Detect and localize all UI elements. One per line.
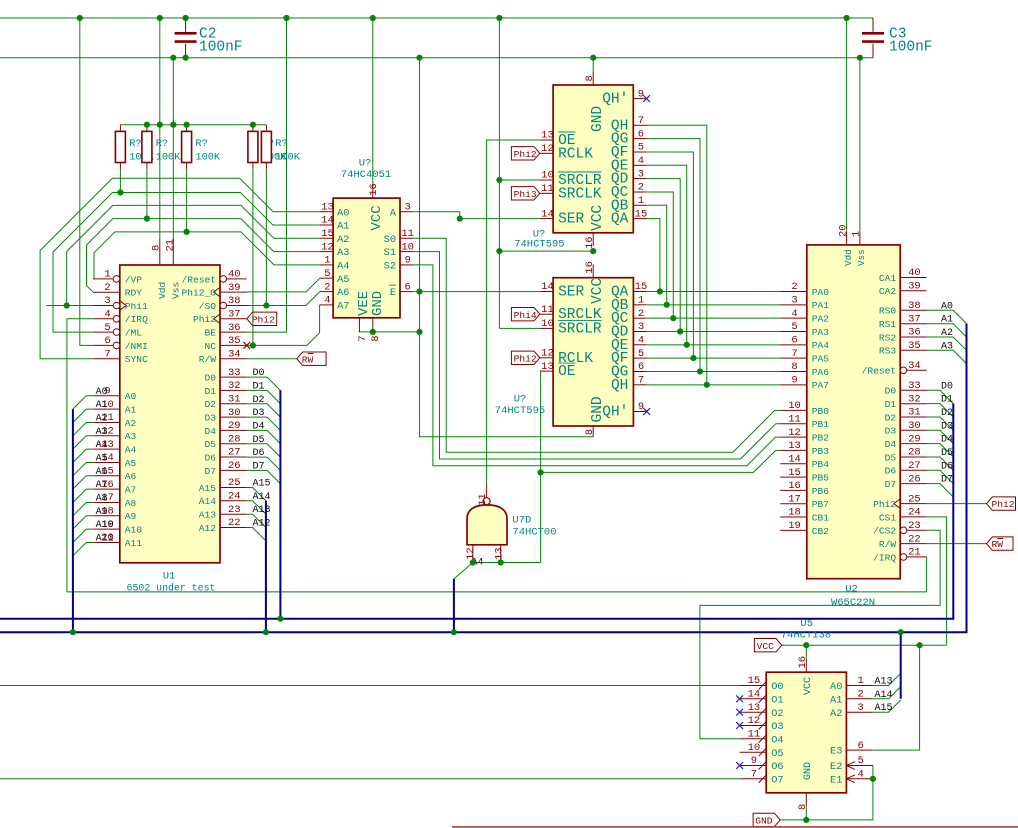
- svg-text:6: 6: [638, 128, 644, 140]
- svg-text:27: 27: [908, 460, 921, 472]
- wire U2 D7 bus entry: [927, 484, 954, 497]
- svg-text:VCC: VCC: [590, 205, 606, 231]
- wire D2 bus entry: [247, 404, 281, 417]
- wire PB3 branch: [541, 450, 781, 472]
- svg-text:14: 14: [541, 208, 554, 220]
- svg-text:A4: A4: [337, 261, 349, 273]
- no-connect QH' 595 top: [643, 95, 650, 102]
- svg-text:A13: A13: [199, 510, 217, 521]
- svg-text:36: 36: [908, 327, 921, 339]
- pin 35 NC no-connect X: [243, 342, 250, 349]
- power label VCC: [754, 639, 781, 652]
- svg-text:5: 5: [104, 322, 110, 334]
- svg-text:Vss: Vss: [171, 282, 182, 299]
- pin 3 PA1 U2: [780, 304, 807, 306]
- svg-text:34: 34: [228, 348, 241, 360]
- pin 27 D6 U2: [900, 469, 926, 471]
- pin 14 O1 U5: [740, 698, 767, 700]
- pin 5 /ML U1: [93, 331, 113, 333]
- svg-text:2: 2: [791, 281, 797, 293]
- svg-text:R?: R?: [129, 138, 141, 150]
- wire U2 RS3 bus entry: [927, 350, 967, 363]
- wire R3 bottom: [186, 169, 188, 232]
- svg-text:A15: A15: [199, 483, 217, 494]
- wire mux VEE to GND: [359, 330, 419, 333]
- svg-text:7: 7: [791, 348, 797, 360]
- wire U5 O7 left: [0, 778, 740, 780]
- svg-text:16: 16: [788, 480, 801, 492]
- pin 8 Vdd U1: [159, 238, 161, 265]
- svg-text:E2: E2: [830, 761, 842, 773]
- pin 9 A0 U1: [93, 395, 120, 397]
- pin 30 D3 U1: [220, 416, 247, 418]
- svg-text:VCC: VCC: [590, 278, 606, 304]
- pin 23 A13 U1: [220, 513, 247, 515]
- pin 5 QF 595 top: [633, 151, 646, 153]
- pin 20 A11 U1: [93, 541, 120, 543]
- wire SRCLR bottom 595: [499, 327, 539, 329]
- svg-text:QH': QH': [602, 405, 628, 421]
- no-connect X U5 O1: [736, 695, 743, 702]
- pin 9 QH' 595 top: [633, 98, 646, 100]
- pin 10 A1 U1: [93, 408, 120, 410]
- wire U5 VCC pin drop: [805, 645, 807, 659]
- pin 21 Vss U1: [172, 238, 174, 265]
- partial component bottom edge: [452, 826, 1018, 828]
- pin 16 VCC 595 bottom: [592, 264, 594, 277]
- svg-text:S0: S0: [384, 234, 396, 246]
- svg-text:D2: D2: [253, 395, 265, 406]
- svg-text:SRCLK: SRCLK: [558, 186, 602, 202]
- svg-text:11: 11: [541, 183, 554, 195]
- via U2 W65C22N body: [807, 245, 900, 579]
- pin 3 A U? 4051: [400, 211, 413, 213]
- svg-text:5: 5: [638, 348, 644, 360]
- wire A6 bus entry: [73, 476, 93, 489]
- svg-text:A7: A7: [337, 301, 349, 313]
- pin 14 SER 595 bottom: [540, 291, 553, 293]
- wire GND to U1 Vss: [172, 58, 174, 239]
- pin 29 D4 U1: [220, 429, 247, 431]
- pin 3 QD 595 top: [633, 178, 646, 180]
- svg-text:38: 38: [908, 300, 921, 312]
- svg-text:PA7: PA7: [812, 380, 829, 391]
- svg-text:Phi2: Phi2: [252, 314, 275, 325]
- wire QH bottom595 to PA7: [647, 384, 781, 386]
- svg-text:6: 6: [791, 335, 797, 347]
- svg-text:QH': QH': [602, 92, 628, 108]
- svg-text:12: 12: [748, 715, 761, 727]
- svg-text:CB2: CB2: [812, 526, 830, 537]
- svg-text:D3: D3: [204, 413, 216, 424]
- svg-text:R?: R?: [156, 138, 168, 150]
- svg-text:8: 8: [584, 75, 596, 81]
- svg-text:14: 14: [541, 281, 554, 293]
- svg-text:13: 13: [788, 440, 801, 452]
- svg-text:VCC: VCC: [369, 205, 385, 230]
- svg-text:U?: U?: [514, 394, 527, 406]
- pin 11 A2 U1: [93, 421, 120, 423]
- pin 1 QB 595 top: [633, 204, 646, 206]
- pin 4 E1 U5: [846, 778, 873, 780]
- pin 10 S1 U? 4051: [400, 251, 413, 253]
- svg-text:SRCLR: SRCLR: [558, 321, 602, 337]
- svg-text:Vss: Vss: [856, 249, 867, 266]
- pin 30 D3 U2: [900, 429, 926, 431]
- pin 8 GND U5: [805, 793, 807, 806]
- svg-text:7: 7: [357, 335, 369, 341]
- pin 38 RS0 U2: [900, 309, 926, 311]
- wire net A6 mux to /SO: [247, 292, 320, 306]
- svg-text:A3: A3: [941, 341, 953, 352]
- svg-text:O6: O6: [771, 761, 783, 773]
- svg-text:U7D: U7D: [512, 514, 531, 526]
- svg-text:SER: SER: [558, 285, 584, 301]
- pin 39 Phi2_O U1: [220, 291, 247, 293]
- svg-text:A14: A14: [199, 496, 217, 507]
- pin 17 PB7 U2: [780, 503, 807, 505]
- svg-text:6: 6: [404, 281, 410, 293]
- bus U1 data vertical: [279, 390, 281, 618]
- shift register U? 74HCT595 top body: [553, 85, 633, 233]
- svg-text:A8: A8: [125, 498, 137, 509]
- bus U1 A12-A15 vertical: [265, 501, 267, 632]
- svg-text:A5: A5: [337, 274, 349, 286]
- svg-text:A6: A6: [125, 471, 137, 482]
- svg-text:CA2: CA2: [879, 286, 897, 297]
- svg-text:D1: D1: [204, 386, 216, 397]
- svg-text:VCC: VCC: [757, 641, 775, 652]
- pin 27 D6 U1: [220, 456, 247, 458]
- resistor R? (2) 100K: [146, 125, 148, 132]
- svg-text:37: 37: [228, 309, 241, 321]
- wire A10 bus entry: [73, 529, 93, 542]
- wire net A0 mux to SYNC: [40, 178, 320, 358]
- wire resistor tops VCC: [120, 124, 266, 126]
- wire net A7 mux to NC: [247, 305, 320, 346]
- svg-text:E3: E3: [830, 746, 842, 758]
- svg-text:A9: A9: [125, 511, 137, 522]
- pin 36 RS2 U2: [900, 336, 926, 338]
- pin 9 QH' 595 bottom: [633, 411, 646, 413]
- pin 4 QE 595 bottom: [633, 344, 646, 346]
- svg-text:26: 26: [908, 473, 921, 485]
- pin 16 PB6 U2: [780, 489, 807, 491]
- wire QF top595: [647, 152, 694, 358]
- svg-text:Phi2: Phi2: [873, 499, 896, 510]
- svg-text:35: 35: [908, 340, 921, 352]
- wire mux S0 to U2 PB0: [413, 238, 780, 452]
- wire QD bottom595 to PA3: [647, 330, 781, 332]
- bus A4 entry vertical: [453, 579, 455, 632]
- svg-text:D2: D2: [941, 408, 953, 419]
- svg-text:23: 23: [228, 504, 241, 516]
- wire mux S1 to U2 PB1: [413, 252, 780, 459]
- svg-text:D5: D5: [941, 448, 953, 459]
- pin 18 CB1 U2: [780, 516, 807, 518]
- svg-text:A3: A3: [125, 431, 137, 442]
- svg-text:/ML: /ML: [125, 328, 143, 339]
- pin 16 VCC 595 top: [592, 233, 594, 246]
- svg-text:RS3: RS3: [879, 346, 897, 357]
- resistor R? (3) 100K: [186, 125, 188, 132]
- wire /IRQ net U1 to U2: [67, 319, 927, 592]
- svg-text:Vdd: Vdd: [843, 249, 854, 266]
- svg-text:100nF: 100nF: [889, 40, 933, 56]
- hier label Phi4 at bottom595 SRCLK: [511, 308, 539, 321]
- pin 1 QB 595 bottom: [633, 304, 646, 306]
- svg-text:8: 8: [797, 804, 809, 810]
- svg-text:A4: A4: [96, 440, 108, 451]
- pin 6 QG 595 top: [633, 138, 646, 140]
- pin 33 D0 U1: [220, 376, 247, 378]
- pin 5 QF 595 bottom: [633, 357, 646, 359]
- pin 6 /NMI U1: [93, 344, 113, 346]
- svg-text:12: 12: [788, 427, 801, 439]
- wire mux S2 to U2 PB2: [413, 265, 780, 466]
- svg-text:10: 10: [401, 241, 414, 253]
- svg-text:D6: D6: [204, 452, 216, 463]
- svg-text:D4: D4: [204, 426, 216, 437]
- svg-text:25: 25: [228, 477, 241, 489]
- svg-text:4: 4: [638, 335, 644, 347]
- pin 34 /Reset U2: [907, 369, 927, 371]
- wire A0 bus entry: [73, 396, 93, 409]
- svg-text:10: 10: [541, 170, 554, 182]
- svg-text:28: 28: [228, 433, 241, 445]
- svg-text:PB1: PB1: [812, 419, 830, 430]
- svg-text:2: 2: [638, 308, 644, 320]
- svg-text:4: 4: [857, 769, 863, 781]
- svg-text:25: 25: [908, 493, 921, 505]
- svg-text:A0: A0: [941, 301, 953, 312]
- pin 25 Phi2 U2: [900, 503, 926, 505]
- wire QB bottom595 to PA1: [647, 304, 781, 306]
- svg-text:40: 40: [908, 267, 921, 279]
- svg-text:11: 11: [788, 413, 801, 425]
- wire R2 bottom: [146, 169, 148, 218]
- svg-text:12: 12: [321, 241, 334, 253]
- svg-text:7: 7: [104, 348, 110, 360]
- svg-text:A2: A2: [830, 708, 842, 720]
- svg-text:13: 13: [541, 130, 554, 142]
- svg-text:GND: GND: [370, 291, 386, 316]
- pin 11 SRCLK 595 bottom: [540, 313, 553, 315]
- pin 10 SRCLR 595 bottom: [540, 327, 553, 329]
- svg-text:4: 4: [104, 309, 110, 321]
- svg-text:12: 12: [541, 348, 554, 360]
- svg-text:Phi3: Phi3: [514, 189, 537, 200]
- svg-text:O0: O0: [771, 681, 783, 693]
- svg-text:26: 26: [228, 460, 241, 472]
- svg-text:A7: A7: [125, 485, 137, 496]
- pin 2 PA0 U2: [780, 291, 807, 293]
- pin 11 O4 U5: [740, 738, 767, 740]
- svg-text:A3: A3: [96, 427, 108, 438]
- wire U2 /CS2 to U5 O4: [700, 530, 940, 739]
- svg-text:A6: A6: [337, 287, 349, 299]
- svg-text:10: 10: [788, 400, 801, 412]
- pin 21 /IRQ U2: [907, 556, 927, 558]
- wire NAND input to bus entry A4: [454, 563, 473, 579]
- svg-text:15: 15: [788, 467, 801, 479]
- wire U5 GND pin drop: [805, 806, 807, 820]
- svg-text:15: 15: [321, 228, 334, 240]
- pin 26 D7 U1: [220, 469, 247, 471]
- svg-text:D7: D7: [253, 461, 265, 472]
- svg-text:74HCT00: 74HCT00: [512, 526, 556, 538]
- pin 7 O7 U5: [740, 778, 767, 780]
- svg-text:15: 15: [748, 675, 761, 687]
- svg-text:1: 1: [857, 675, 863, 687]
- pin 15 O0 U5: [740, 685, 767, 687]
- svg-text:PA6: PA6: [812, 367, 830, 378]
- no-connect X U5 O6: [736, 762, 743, 769]
- svg-text:D1: D1: [253, 381, 265, 392]
- svg-text:Phi4: Phi4: [514, 310, 537, 321]
- svg-text:31: 31: [908, 407, 921, 419]
- pin 2 A1 U5: [846, 698, 873, 700]
- svg-text:PB4: PB4: [812, 459, 830, 470]
- wire VCC net U5: [782, 644, 947, 646]
- pin 36 BE U1: [220, 331, 247, 333]
- svg-text:3: 3: [638, 321, 644, 333]
- resistor R? (1) 100K: [119, 125, 121, 132]
- svg-text:A11: A11: [125, 538, 143, 549]
- wire net A1 mux to /ML: [53, 193, 320, 333]
- wire VCC to U5 E3: [873, 645, 920, 750]
- pin 35 RS3 U2: [900, 349, 926, 351]
- svg-text:D6: D6: [885, 466, 897, 477]
- pin 12 RCLK 595 bottom: [540, 357, 553, 359]
- svg-text:3: 3: [104, 295, 110, 307]
- wire D6 bus entry: [247, 457, 281, 470]
- hier label Phi3 at top595 SRCLK: [511, 187, 539, 200]
- svg-text:7: 7: [638, 375, 644, 387]
- svg-text:22: 22: [908, 533, 921, 545]
- wire net A3 mux to RDY: [87, 219, 320, 293]
- svg-text:5: 5: [638, 142, 644, 154]
- svg-text:O3: O3: [771, 721, 783, 733]
- wire QH top595: [647, 125, 707, 385]
- pin 20 Vdd U2: [846, 232, 848, 245]
- svg-text:D3: D3: [253, 408, 265, 419]
- pin 7 QH 595 top: [633, 124, 646, 126]
- wire QC bottom595 to PA2: [647, 317, 781, 319]
- svg-text:29: 29: [228, 420, 241, 432]
- svg-text:Phi2: Phi2: [514, 149, 537, 160]
- wire VCC to U2 Vdd: [846, 18, 848, 232]
- svg-text:RS0: RS0: [879, 306, 897, 317]
- pin 2 QC 595 top: [633, 191, 646, 193]
- wire A14 bus entry U5: [873, 687, 901, 699]
- svg-text:PB7: PB7: [812, 499, 829, 510]
- svg-text:9: 9: [638, 88, 644, 100]
- svg-text:D7: D7: [941, 475, 953, 486]
- svg-text:O7: O7: [771, 774, 783, 786]
- svg-text:4: 4: [791, 308, 797, 320]
- capacitor C3: [872, 18, 874, 32]
- wire R1 bottom: [119, 169, 121, 192]
- svg-text:100K: 100K: [195, 152, 221, 164]
- svg-text:A2: A2: [125, 418, 137, 429]
- svg-text:1: 1: [324, 255, 330, 267]
- svg-text:4: 4: [324, 295, 330, 307]
- resistor R? (5) 100K: [265, 125, 267, 132]
- svg-text:Phi2_O: Phi2_O: [181, 288, 216, 299]
- svg-text:14: 14: [748, 689, 761, 701]
- svg-text:CS1: CS1: [879, 512, 897, 523]
- svg-text:PA1: PA1: [812, 300, 830, 311]
- svg-text:34: 34: [908, 360, 921, 372]
- svg-text:3: 3: [404, 201, 410, 213]
- svg-text:D6: D6: [253, 448, 265, 459]
- pin 26 D7 U2: [900, 483, 926, 485]
- wire U2 D4 bus entry: [927, 444, 954, 457]
- pin 5 PA3 U2: [780, 330, 807, 332]
- svg-text:12: 12: [541, 143, 554, 155]
- svg-text:21: 21: [908, 547, 921, 559]
- svg-text:U2: U2: [845, 584, 858, 596]
- pin 31 D2 U2: [900, 416, 926, 418]
- wire GND to top595 GND: [592, 58, 594, 72]
- svg-text:Vdd: Vdd: [157, 282, 168, 299]
- wire NAND output to top595 OE: [487, 140, 540, 484]
- svg-text:A5: A5: [125, 458, 137, 469]
- wire VCC vertical to SRCLR pins: [498, 18, 500, 328]
- pin 13 OE 595 top: [540, 139, 553, 141]
- svg-text:8: 8: [791, 361, 797, 373]
- svg-text:8: 8: [584, 429, 596, 435]
- wire D5 bus entry: [247, 444, 281, 457]
- svg-text:D3: D3: [941, 421, 953, 432]
- wire VCC to U3 pin16: [372, 18, 374, 185]
- svg-text:15: 15: [635, 281, 648, 293]
- svg-text:/VP: /VP: [125, 274, 143, 285]
- svg-text:17: 17: [788, 493, 801, 505]
- svg-text:1: 1: [638, 295, 644, 307]
- svg-text:U1: U1: [163, 571, 176, 583]
- svg-text:29: 29: [908, 433, 921, 445]
- wire QG top595: [647, 139, 700, 372]
- pin 28 D5 U2: [900, 456, 926, 458]
- pin 6 QG 595 bottom: [633, 371, 646, 373]
- wire U2 D3 bus entry: [927, 430, 954, 443]
- svg-text:1: 1: [851, 231, 863, 237]
- svg-text:RS2: RS2: [879, 332, 897, 343]
- svg-text:A1: A1: [96, 400, 108, 411]
- wire OE net to U2 PB3: [540, 371, 542, 562]
- svg-text:9: 9: [751, 755, 757, 767]
- svg-text:A1: A1: [337, 221, 349, 233]
- pin 8 GND U? 4051: [372, 318, 374, 332]
- pin 2 RDY U1: [93, 291, 120, 293]
- svg-text:16: 16: [368, 183, 380, 196]
- bus data D0-D7 horizontal: [0, 404, 953, 619]
- svg-text:GND: GND: [590, 106, 606, 132]
- pin 19 A10 U1: [93, 528, 120, 530]
- svg-text:16: 16: [584, 261, 596, 274]
- wire QA top595: [647, 219, 660, 292]
- svg-text:A14: A14: [253, 492, 271, 503]
- svg-text:A0: A0: [337, 207, 349, 219]
- pin 12 A3 U1: [93, 435, 120, 437]
- svg-text:O5: O5: [771, 748, 783, 760]
- svg-text:Phi2: Phi2: [193, 314, 216, 325]
- pin 2 A6 U? 4051: [320, 291, 333, 293]
- svg-text:3: 3: [857, 702, 863, 714]
- wire QC top595: [647, 192, 674, 318]
